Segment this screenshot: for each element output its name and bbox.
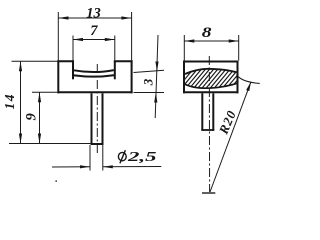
svg-text:3: 3 — [141, 78, 156, 86]
svg-text:9: 9 — [23, 113, 39, 120]
svg-text:13: 13 — [86, 5, 101, 21]
svg-text:2,5: 2,5 — [126, 149, 157, 164]
svg-text:14: 14 — [2, 93, 17, 110]
svg-text:8: 8 — [202, 24, 212, 40]
svg-text:7: 7 — [90, 23, 98, 39]
